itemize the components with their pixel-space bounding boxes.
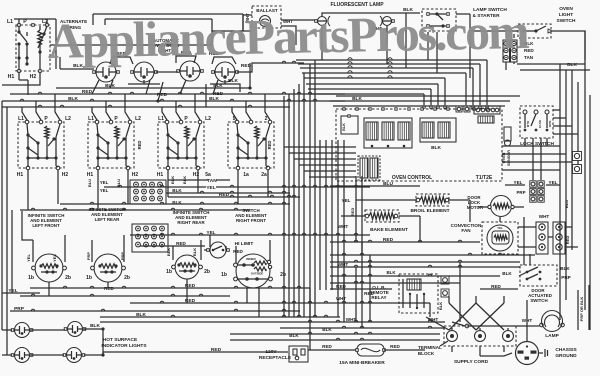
wires switch tops to bus xyxy=(22,94,270,120)
OLB relay box xyxy=(399,274,443,313)
wires bake element xyxy=(341,216,420,242)
wires broil element xyxy=(356,200,470,222)
oven control bus above xyxy=(330,96,520,106)
labels terminals box 1 xyxy=(17,116,71,178)
label BLK mid bus xyxy=(0,0,1,1)
transformer xyxy=(358,156,380,180)
wire mid bundle into oven control xyxy=(284,147,356,177)
wire RED to breaker xyxy=(308,344,357,350)
convection fan motor xyxy=(482,222,518,254)
labels terminals box 3 xyxy=(157,116,211,178)
coil below strip xyxy=(478,116,494,123)
wire right edge horizontals xyxy=(502,64,590,170)
wire RED bulb4 top xyxy=(209,51,236,64)
extra horizontals lower right xyxy=(330,274,500,283)
label YEL YEL left front xyxy=(26,254,57,262)
door lock motor xyxy=(478,196,524,217)
wire verticals into connector strip xyxy=(506,31,514,70)
surface element right rear xyxy=(166,255,210,279)
oven light bulb 1 xyxy=(93,62,120,82)
lamp switch and starter box xyxy=(422,9,456,31)
terminal strip 2 xyxy=(553,222,565,254)
wire bulb2-bulb3 xyxy=(156,71,178,73)
labels terminals box 4 xyxy=(233,116,268,178)
bottom bus wires xyxy=(100,320,445,340)
oven light bulb 3 xyxy=(177,61,204,81)
connector pairs below lock xyxy=(530,181,544,202)
wire ballast right to lamp xyxy=(281,20,317,45)
label fluorescent lamp xyxy=(330,2,384,8)
relay bank 1 xyxy=(364,118,412,148)
svg-text:AppliancePartsPros.com: AppliancePartsPros.com xyxy=(47,3,529,69)
label automatic oven lights xyxy=(153,38,181,53)
bus wire BLK xyxy=(2,96,345,102)
supply plug xyxy=(516,342,539,365)
wire WHT 267 xyxy=(330,262,520,267)
oven light switch box xyxy=(518,24,552,38)
terminal block xyxy=(444,326,516,346)
wire nest feeders from lamp circuit xyxy=(322,13,470,78)
oven control top terminals xyxy=(343,108,488,110)
label BLK relay xyxy=(431,145,441,151)
label door lock motor xyxy=(467,195,484,210)
labels door actuated switch xyxy=(502,266,570,280)
label oven light switch xyxy=(557,6,576,24)
wire RED bulb3 top xyxy=(176,50,196,63)
wire RED near relay xyxy=(330,284,392,296)
wire YEL mid xyxy=(104,185,370,191)
wire YEL 293 xyxy=(2,288,40,294)
center-right vertical bundle xyxy=(320,140,344,290)
door actuated switch box xyxy=(519,265,557,286)
wires lock switch to connector pairs xyxy=(525,138,547,180)
wire top-left long runs xyxy=(93,14,243,31)
wires indicator lights xyxy=(2,327,105,356)
label infinite switch left rear xyxy=(89,207,126,222)
wire RED 288 xyxy=(30,283,310,291)
indicator light 2 xyxy=(64,322,86,337)
wire 255 262 xyxy=(330,253,535,262)
label infinite switch right rear xyxy=(173,210,210,225)
hi limit switch xyxy=(207,241,254,258)
bus vertical drops xyxy=(92,63,252,107)
wires YEL YEL PRP connectors xyxy=(505,180,560,195)
labels under box3 xyxy=(170,172,211,184)
bus wire RED xyxy=(10,89,345,98)
wire RED 303 xyxy=(130,298,430,304)
fluorescent lamp right electrode xyxy=(372,16,394,31)
wire BLK 317 xyxy=(100,312,340,318)
wires switch bottoms down xyxy=(28,170,268,210)
label terminal block xyxy=(418,341,448,356)
label switch and element right front xyxy=(235,208,267,223)
wire BLK low xyxy=(60,200,290,205)
supply cord crossing wires xyxy=(426,296,504,356)
label 120V receptacle xyxy=(259,349,292,361)
wire oven light switch to right edge xyxy=(552,31,585,60)
connector strip BLK RED TAN xyxy=(503,40,517,62)
label BLK WHT near relay xyxy=(336,270,396,301)
label bake element xyxy=(370,227,408,233)
small connectors right xyxy=(456,106,470,112)
surface element left front xyxy=(28,254,71,282)
indicator light 3 xyxy=(11,348,33,363)
wires door lock area verticals xyxy=(500,217,530,265)
fluorescent lamp left electrode xyxy=(315,16,330,26)
bus wire 4 xyxy=(56,83,250,88)
label lock switch xyxy=(520,141,554,147)
wire BLU under oven control xyxy=(330,181,420,187)
wire verticals right edge xyxy=(560,31,590,330)
wire row 210 xyxy=(20,208,250,210)
connector strip top right inside xyxy=(474,106,500,114)
label L1 P L2 (alternate) xyxy=(7,19,48,25)
wire TAN xyxy=(168,178,230,184)
surface element left rear xyxy=(86,254,130,282)
label BLK right bus xyxy=(567,62,577,68)
connector grid A xyxy=(130,180,166,204)
infinite switch box 2 xyxy=(88,120,134,170)
labels WHT BLU RED strips xyxy=(539,200,570,244)
connector squares right of relay xyxy=(441,276,449,297)
indicator light 4 xyxy=(63,348,85,363)
wire alternate box to right xyxy=(2,19,212,95)
wire RED 242 xyxy=(330,237,480,243)
label PRP OR BLK rotated xyxy=(578,285,589,330)
label hot surface indicator lights xyxy=(101,337,147,349)
wire BLK to bulb1 xyxy=(60,57,94,69)
label RED vertical right of box4 xyxy=(267,141,272,150)
label 15A mini-breaker xyxy=(339,360,385,366)
label RED vertical between box2 box3 xyxy=(137,141,142,150)
wire RED bulb1-bulb2 xyxy=(110,51,133,64)
wire RED grid xyxy=(168,192,300,198)
label oven control T1/T2E xyxy=(392,175,493,181)
label ALTERNATE WIRING xyxy=(60,19,87,30)
wire BLK grid xyxy=(166,188,290,193)
label BLK above oven control xyxy=(352,96,362,102)
oven light bulb 4 xyxy=(212,62,239,82)
wire ballast left xyxy=(212,15,252,45)
wire RED 246 xyxy=(140,241,205,246)
chassis ground xyxy=(539,347,577,359)
wire RED near door switch xyxy=(480,284,518,289)
wire starter to oven light switch xyxy=(456,14,518,31)
wire lamp to starter BLK xyxy=(322,7,420,16)
bake element xyxy=(365,210,399,222)
wire BLK below bulb2 xyxy=(105,80,160,89)
wires surface element bottoms xyxy=(49,279,259,317)
wire RED long bottom xyxy=(103,347,288,355)
labels YEL RED WHT left of bake xyxy=(338,198,355,229)
wires terminal strips stubs xyxy=(518,227,578,247)
left connector small box xyxy=(341,115,358,134)
label lamp switch & starter xyxy=(472,7,507,19)
left edge verticals xyxy=(2,101,12,355)
surface element right front dual xyxy=(221,254,286,288)
receptacle xyxy=(289,346,308,362)
label convection fan xyxy=(451,223,482,233)
label BLK BLK right rear xyxy=(166,248,197,256)
verticals lower right area xyxy=(310,242,460,350)
wires down to surface elements xyxy=(22,211,270,264)
label OLB remote relay xyxy=(369,285,389,300)
ground screws right xyxy=(573,152,582,174)
oven lamp xyxy=(452,311,564,340)
oven control box xyxy=(336,109,502,181)
mid verticals right of burners xyxy=(356,176,362,255)
connector grid B xyxy=(132,224,168,252)
indicator light 1 xyxy=(11,323,33,338)
labels terminals box 2 xyxy=(87,116,141,178)
labels bottom bus xyxy=(289,317,438,338)
infinite switch box 1 xyxy=(18,120,64,170)
wire nest stepped runs xyxy=(296,58,488,108)
wire PRP 311 xyxy=(10,306,300,312)
oven light bulb 2 xyxy=(131,62,158,82)
wire RED right of bulb4 xyxy=(237,61,304,72)
label H1 H2 (alternate) xyxy=(8,74,37,80)
center vertical bundle xyxy=(284,60,315,317)
wire 296 xyxy=(20,294,230,296)
broil element xyxy=(416,194,449,206)
label broil element xyxy=(410,208,449,214)
relay bank 2 xyxy=(420,118,456,142)
infinite switch box 4 xyxy=(228,120,274,170)
oven sensor xyxy=(502,127,511,166)
wire to supply plug xyxy=(480,300,527,356)
wire YEL 235 xyxy=(130,230,370,235)
lock switch box xyxy=(520,106,553,138)
ballast xyxy=(245,6,293,28)
wire RED from breaker xyxy=(384,344,425,350)
label PRP PRP left rear xyxy=(86,252,125,261)
labels BLK RED TAN xyxy=(524,41,534,60)
label WHT near lamp xyxy=(522,318,533,323)
label BLU BLU YEL YEL xyxy=(87,179,121,193)
bus wire 3 xyxy=(2,105,290,107)
label supply cord xyxy=(454,359,489,365)
wire BLK below bulb4 xyxy=(210,78,240,92)
infinite switch box 3 xyxy=(158,120,204,170)
alternate wiring switch box xyxy=(16,24,50,73)
mini breaker xyxy=(356,344,386,356)
label BLK indicators xyxy=(90,323,100,329)
terminal strip 1 xyxy=(536,222,548,254)
label infinite switch left front xyxy=(28,213,65,228)
